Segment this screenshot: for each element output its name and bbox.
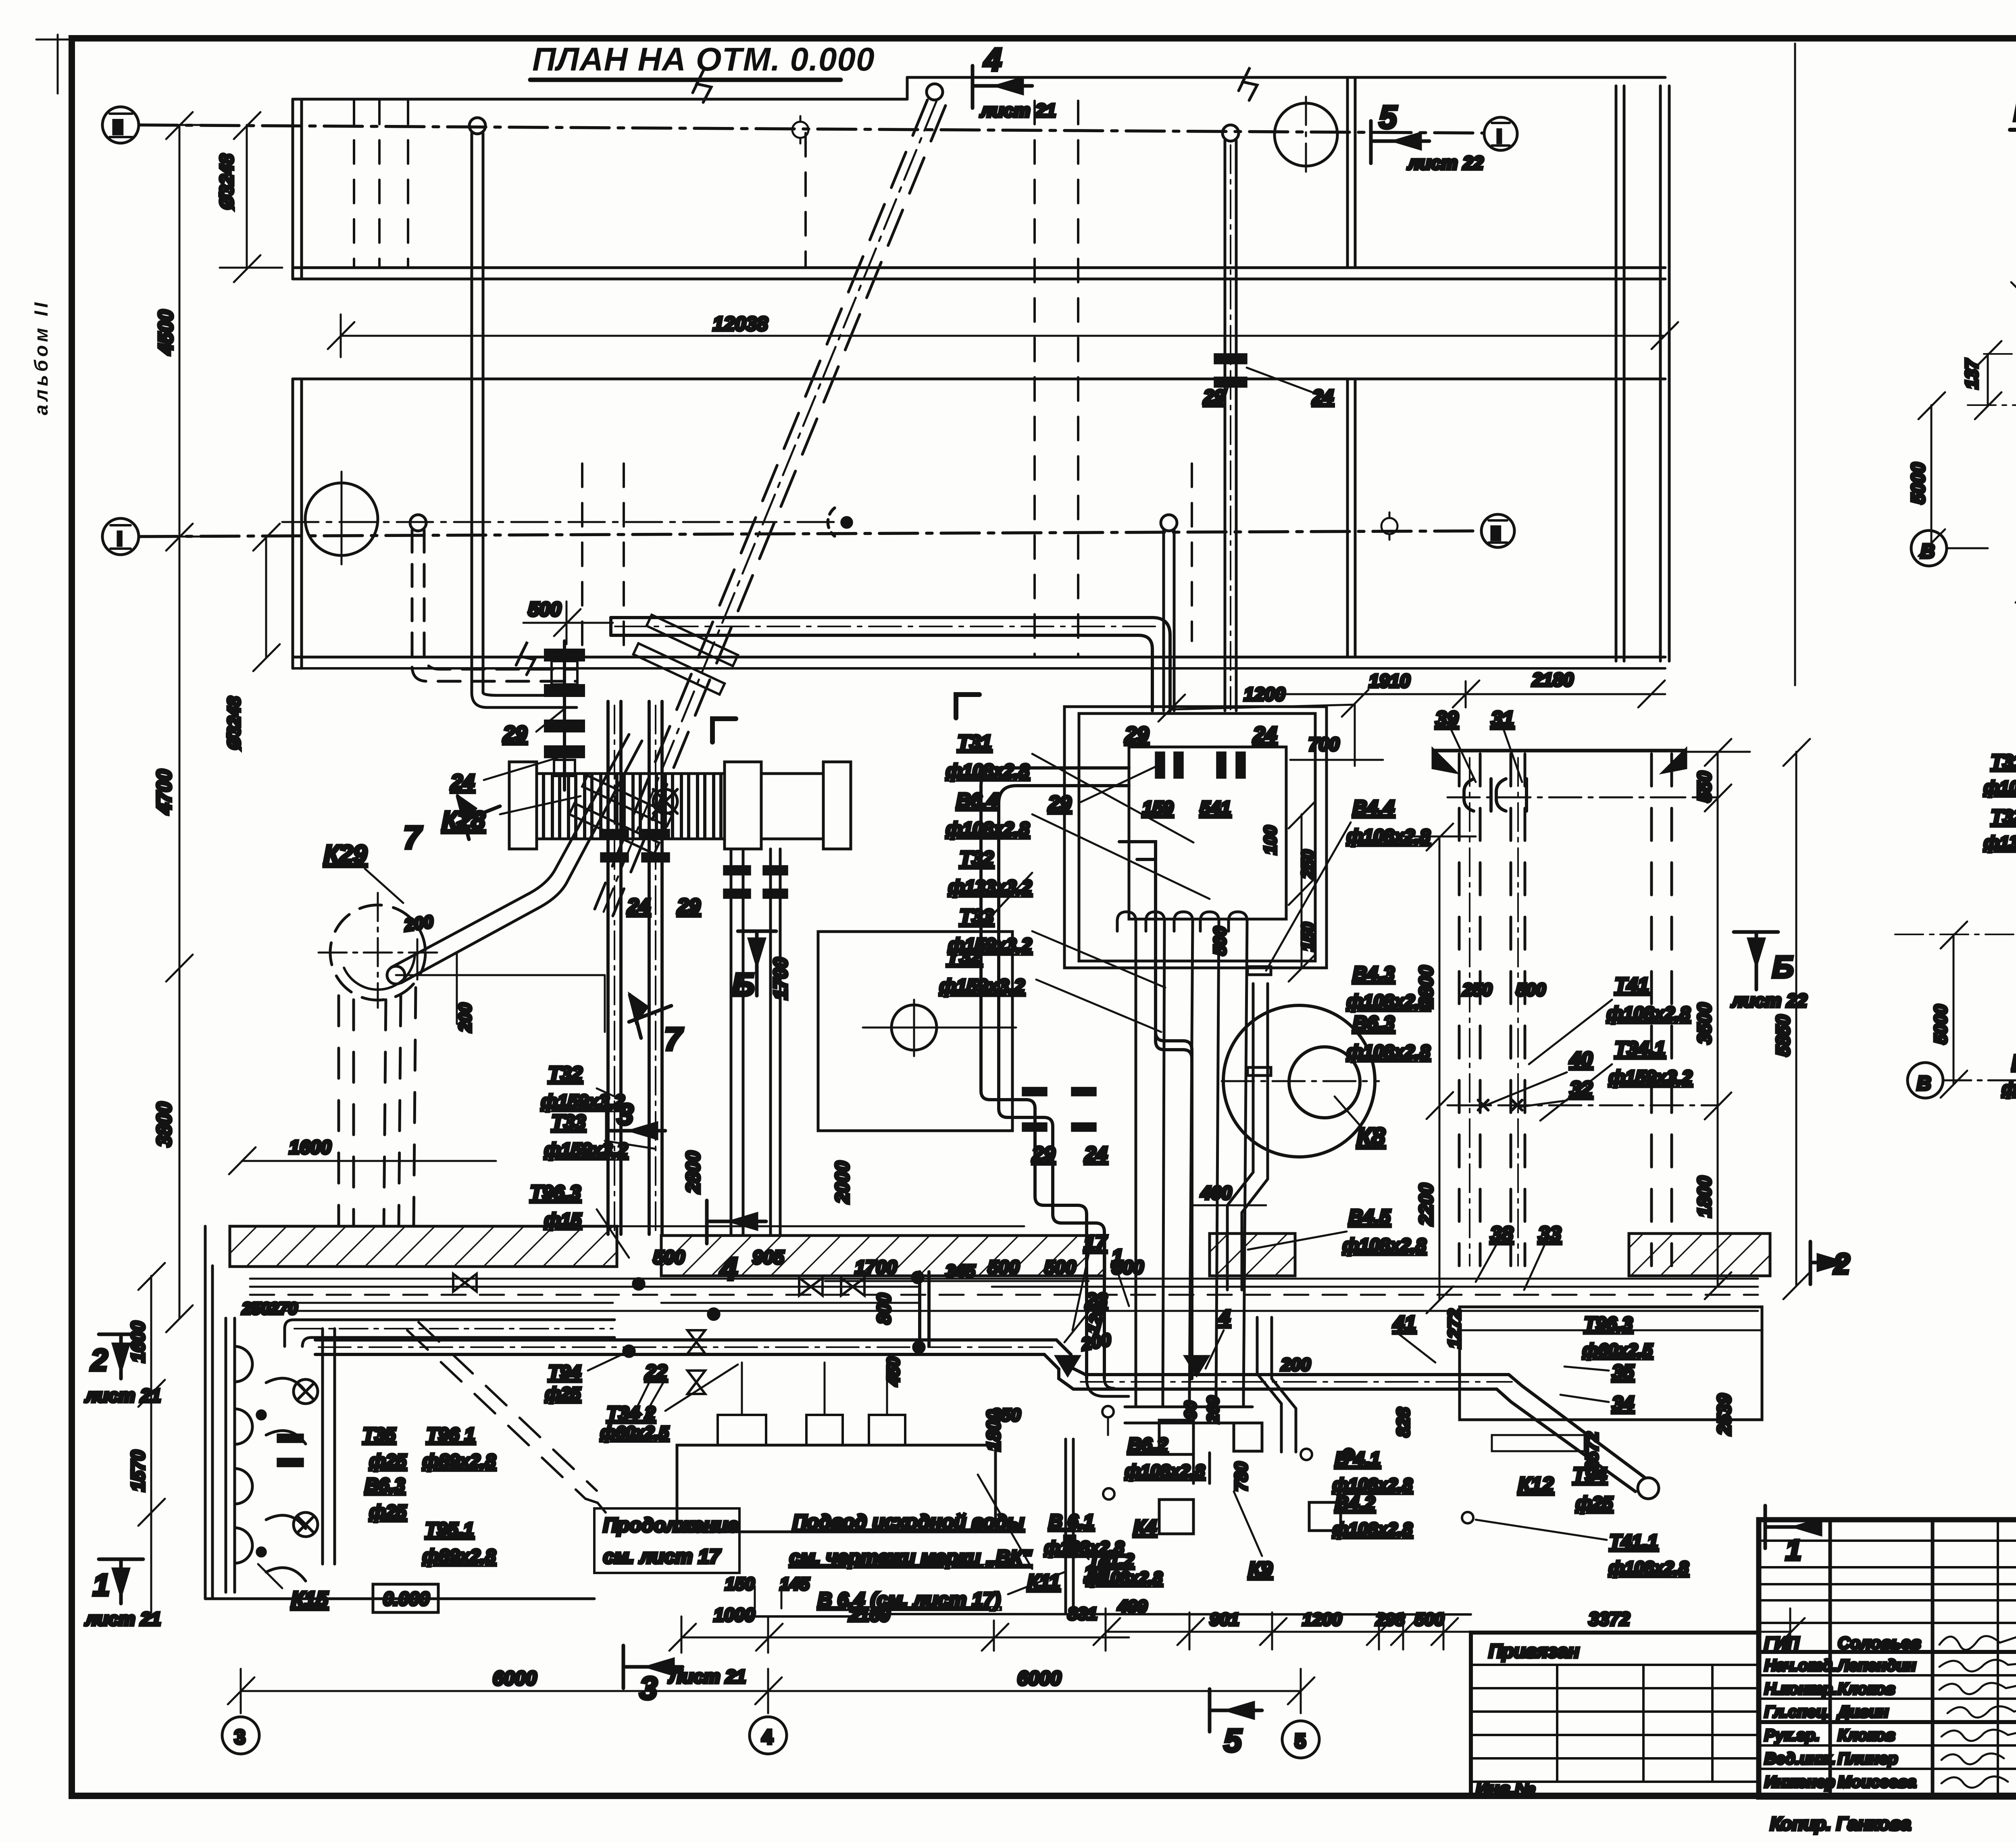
- svg-text:4700: 4700: [153, 770, 175, 815]
- svg-text:1570: 1570: [127, 1450, 148, 1491]
- svg-text:500: 500: [1516, 980, 1546, 1000]
- label T41.2: [0, 0, 2, 2]
- svg-text:лист 22: лист 22: [1731, 990, 1808, 1011]
- label T41: [1529, 974, 1690, 1064]
- svg-text:1272: 1272: [1445, 1309, 1464, 1348]
- svg-text:700: 700: [1308, 734, 1339, 755]
- label B6.1 + K4: [1044, 1510, 1156, 1558]
- svg-text:Привязан: Привязан: [1489, 1640, 1579, 1662]
- corner mark near manifold: [712, 719, 736, 742]
- svg-text:Т94: Т94: [548, 1361, 581, 1383]
- title block outer: [1759, 1520, 2016, 1797]
- svg-text:Инв.№: Инв.№: [1476, 1779, 1535, 1799]
- dims 1600 1570 left: [138, 1263, 165, 1612]
- mid-left standpipes T32/T33: [608, 701, 662, 1234]
- MAIN-TITLE: [530, 41, 875, 80]
- svg-text:В6,3: В6,3: [365, 1474, 405, 1496]
- label T33 f159 (left): [544, 1111, 656, 1160]
- dim 5850 far right: [1783, 739, 1810, 1299]
- svg-text:298: 298: [1375, 1610, 1405, 1629]
- svg-text:ф25: ф25: [369, 1450, 407, 1471]
- K8 flue circle: [1223, 1005, 1375, 1157]
- svg-text:Дивин: Дивин: [1837, 1703, 1889, 1721]
- svg-text:К28: К28: [442, 807, 485, 834]
- section flag 5 bottom: [1210, 1689, 1262, 1732]
- section flag 5 top: [1371, 121, 1429, 163]
- svg-text:31: 31: [1491, 707, 1514, 730]
- section flag 2 right: [1810, 1242, 1843, 1284]
- svg-text:250: 250: [242, 1299, 270, 1318]
- valve symbol on diagonal in coil: [653, 789, 677, 813]
- label T96.1 f89: [423, 1424, 496, 1471]
- B4.5 drop pipe with dogleg: [1227, 967, 1271, 1290]
- left room walls: [205, 1226, 1471, 1622]
- svg-text:К4: К4: [1133, 1516, 1156, 1538]
- channel lines below wall: [250, 1279, 1758, 1311]
- svg-text:159: 159: [1142, 797, 1173, 818]
- svg-text:Т34.1: Т34.1: [1615, 1038, 1665, 1060]
- svg-text:Нач.отд.: Нач.отд.: [1764, 1657, 1837, 1675]
- big pipe T32 S-route: [981, 768, 1129, 1379]
- svg-text:450: 450: [884, 1357, 903, 1386]
- svg-text:3: 3: [639, 1670, 658, 1706]
- section flag 7 lower: [629, 995, 671, 1038]
- svg-text:7: 7: [664, 1021, 683, 1057]
- svg-text:В6.3: В6.3: [1353, 1013, 1395, 1034]
- svg-text:К9: К9: [1248, 1558, 1272, 1581]
- svg-text:ф108х2,8: ф108х2,8: [1984, 778, 2016, 797]
- label T41.1: [1476, 1520, 1689, 1578]
- svg-text:4: 4: [983, 42, 1002, 77]
- svg-text:В4.3: В4.3: [1353, 963, 1395, 985]
- svg-text:Плинер: Плинер: [1838, 1750, 1898, 1768]
- tank 2 manhole circle: [305, 472, 378, 564]
- svg-text:В 6,1: В 6,1: [1049, 1510, 1094, 1532]
- svg-text:Б: Б: [732, 967, 755, 1003]
- X marks 40/32: [1478, 1100, 1522, 1110]
- label B6.4 bottom left: [2002, 986, 2016, 1098]
- svg-text:6000: 6000: [493, 1668, 537, 1689]
- level mark 0.000: [373, 1584, 438, 1612]
- svg-text:Т32: Т32: [548, 1063, 582, 1085]
- svg-text:29: 29: [1048, 792, 1071, 815]
- label T34.1: [1540, 1038, 1692, 1121]
- gas dashed risers (boiler 3): [1459, 754, 1672, 1266]
- K9 drop: [1257, 1317, 1296, 1452]
- circle B left: [1911, 530, 1988, 566]
- label B6.3 f25: [365, 1474, 407, 1522]
- dashed drain T96.1: [407, 1322, 597, 1499]
- break mark on tank1 top: [693, 69, 711, 102]
- svg-text:33: 33: [1538, 1222, 1561, 1245]
- svg-text:ф60х2,5: ф60х2,5: [600, 1423, 669, 1442]
- svg-text:В: В: [1917, 1073, 1931, 1094]
- svg-text:400: 400: [1200, 1182, 1232, 1203]
- dim 500 at left pipes: [523, 601, 613, 644]
- svg-text:ф108х2,8: ф108х2,8: [1343, 1235, 1426, 1256]
- svg-text:Т31: Т31: [958, 732, 991, 753]
- label T94 f25 right: [1573, 1463, 1617, 1514]
- flanges on risers at manifold top: [1156, 753, 1244, 777]
- boiler 3 top line: [1433, 751, 1685, 772]
- svg-text:29: 29: [677, 894, 700, 917]
- svg-text:Подвод исходной воды: Подвод исходной воды: [793, 1511, 1024, 1533]
- svg-text:альбом II: альбом II: [30, 299, 52, 415]
- svg-text:ф108х2,8: ф108х2,8: [1609, 1558, 1689, 1578]
- B6.2 marker dot: [1102, 1406, 1114, 1435]
- svg-text:13: 13: [1084, 1562, 1106, 1584]
- svg-text:ф25: ф25: [545, 1384, 581, 1404]
- section flag 4 top: [973, 66, 1032, 108]
- svg-text:Клоков: Клоков: [1838, 1680, 1895, 1698]
- svg-text:2180: 2180: [1532, 669, 1574, 690]
- svg-text:Лепендин: Лепендин: [1837, 1657, 1916, 1675]
- svg-text:901: 901: [1210, 1610, 1239, 1629]
- svg-text:ф108х2,8: ф108х2,8: [946, 760, 1029, 781]
- svg-text:5000: 5000: [1908, 462, 1929, 504]
- fat pipe F1 left room: [285, 1320, 614, 1346]
- svg-text:828: 828: [1393, 1407, 1413, 1437]
- svg-text:К29: К29: [324, 840, 367, 868]
- flanges on standpipes: [602, 830, 787, 897]
- svg-text:II: II: [112, 117, 123, 138]
- dim 5000 left: [1918, 392, 1945, 556]
- axis circle 4: [750, 1717, 787, 1754]
- svg-text:Т96,3: Т96,3: [1584, 1313, 1633, 1334]
- svg-text:17: 17: [1084, 1231, 1108, 1254]
- svg-text:В4.2: В4.2: [1335, 1492, 1375, 1514]
- label B6.2: [1125, 1434, 1205, 1481]
- flag 1 left: [99, 1559, 143, 1604]
- fold mark line: [1794, 44, 1796, 685]
- svg-text:2800: 2800: [682, 1151, 704, 1194]
- section flag 3 bottom: [623, 1645, 683, 1688]
- svg-text:Рук.гр.: Рук.гр.: [1764, 1727, 1820, 1744]
- dim Ø3248 top: [220, 112, 282, 282]
- svg-text:541: 541: [1200, 797, 1231, 818]
- fat pipe F2 main run: [315, 1340, 1659, 1499]
- label T95.1 f89: [423, 1518, 496, 1566]
- svg-text:24: 24: [1312, 386, 1333, 407]
- svg-text:Ø3248: Ø3248: [216, 154, 237, 210]
- tank 1 flue circle: [1275, 103, 1337, 166]
- svg-text:29: 29: [1203, 386, 1225, 407]
- building columns right: [1616, 86, 1669, 661]
- boiler water pipes (5 drops from manifold): [1117, 912, 1247, 1399]
- left feed pipe A (from tank2 circle): [410, 515, 577, 681]
- svg-text:Б: Б: [1772, 950, 1794, 984]
- svg-text:II: II: [1491, 523, 1501, 544]
- svg-text:лист 22: лист 22: [1407, 152, 1484, 173]
- wall hatch band: [230, 1226, 1770, 1276]
- svg-text:ф159х3,2: ф159х3,2: [948, 934, 1032, 955]
- tank 2 outline (plan): [293, 379, 1665, 668]
- svg-text:Т41.1: Т41.1: [1610, 1531, 1658, 1552]
- label B4.4: [1266, 797, 1430, 971]
- svg-text:ф108х2,8: ф108х2,8: [1333, 1475, 1413, 1495]
- svg-text:5: 5: [1295, 1730, 1306, 1752]
- svg-text:1: 1: [1785, 1534, 1801, 1566]
- label T35 f25: [363, 1424, 407, 1471]
- svg-text:24: 24: [450, 770, 475, 794]
- svg-text:200: 200: [403, 912, 435, 935]
- pump circles: [294, 1379, 318, 1537]
- svg-text:К11: К11: [1027, 1571, 1060, 1593]
- svg-text:ф159х3,2: ф159х3,2: [1609, 1067, 1692, 1088]
- dim 1700 345 500 500 500 row: [825, 1280, 1089, 1282]
- svg-text:3: 3: [234, 1726, 246, 1748]
- svg-text:В4.5: В4.5: [1349, 1206, 1391, 1228]
- dims 1910 2180 top: [1278, 680, 1665, 707]
- svg-text:1600: 1600: [289, 1136, 331, 1158]
- svg-text:План на отм. 14.400: План на отм. 14.400: [2014, 94, 2016, 128]
- circle B 10800: [1908, 1063, 2016, 1098]
- dim 1200 above manifold: [1158, 690, 1368, 722]
- svg-text:ф133х3,2: ф133х3,2: [1984, 833, 2016, 853]
- svg-text:34: 34: [1612, 1393, 1634, 1414]
- svg-text:3: 3: [617, 1098, 633, 1131]
- svg-text:ф159х3,2: ф159х3,2: [939, 975, 1025, 996]
- svg-text:0.000: 0.000: [383, 1588, 430, 1609]
- PLACE-RIGHT: [1471, 1520, 2016, 1837]
- svg-text:Лист 21: Лист 21: [668, 1666, 746, 1687]
- svg-text:41: 41: [1393, 1312, 1416, 1335]
- dim 550 3500 1800 right: [1685, 739, 1750, 1299]
- svg-text:4500: 4500: [154, 310, 177, 355]
- manifold enclosure box: [1064, 707, 1327, 968]
- axis line I-II (bottom): [139, 531, 1480, 537]
- svg-text:269: 269: [1204, 1396, 1222, 1423]
- label T32 10800: [1984, 806, 2016, 923]
- text Продолжение см. лист 17: [594, 1508, 739, 1573]
- svg-text:Т32: Т32: [1991, 806, 2016, 827]
- signatures: [1939, 1629, 2016, 1788]
- left extension box: [1471, 1633, 1759, 1799]
- axis circle 3: [222, 1717, 259, 1754]
- axis circle II left: [102, 107, 139, 143]
- K28 heater coil: [509, 762, 851, 849]
- svg-text:В6.2: В6.2: [1128, 1434, 1168, 1455]
- label T32 f133: [948, 848, 1032, 927]
- dim 5000 left rotated: [1895, 921, 2016, 1098]
- arrow fittings mid: [1056, 1356, 1208, 1375]
- svg-text:4: 4: [762, 1726, 773, 1748]
- title block grid: [1759, 1520, 2016, 1797]
- svg-text:29: 29: [1125, 723, 1149, 747]
- svg-text:6000: 6000: [1017, 1668, 1061, 1689]
- axis line II-I (top): [139, 125, 1483, 133]
- svg-text:1800: 1800: [1694, 1176, 1715, 1217]
- svg-text:Т32: Т32: [960, 848, 993, 869]
- svg-text:2000: 2000: [831, 1161, 853, 1204]
- boiler small circle: [863, 1000, 1016, 1056]
- svg-text:I: I: [1497, 126, 1502, 147]
- svg-text:1200: 1200: [1302, 1610, 1342, 1629]
- svg-text:см. чертежи марки „ВК": см. чертежи марки „ВК": [789, 1547, 1032, 1568]
- svg-text:2200: 2200: [1415, 1183, 1437, 1226]
- label B4.3: [1347, 963, 1430, 1012]
- svg-text:ф108х2,8: ф108х2,8: [1333, 1519, 1413, 1539]
- label T32 f159 (left): [541, 1063, 625, 1112]
- label B4.5: [1248, 1206, 1426, 1256]
- svg-text:100: 100: [1261, 826, 1280, 855]
- svg-text:35: 35: [1612, 1361, 1634, 1383]
- bottom dim row 499 901 1200 298 500 3372: [1093, 1608, 1805, 1651]
- B6.4 riser to below: [1064, 1439, 1075, 1612]
- svg-text:В 6,4 (см. лист 17): В 6,4 (см. лист 17): [818, 1589, 1000, 1611]
- label B4.1: [1333, 1448, 1413, 1495]
- svg-text:ф108х2,8: ф108х2,8: [1607, 1003, 1690, 1024]
- label T32 f159 (mid): [939, 945, 1161, 1032]
- K15 tank arcs: [235, 1346, 252, 1563]
- svg-text:Т33: Т33: [960, 906, 993, 928]
- valves on F pipes: [687, 1330, 705, 1394]
- svg-text:2: 2: [90, 1343, 108, 1377]
- svg-text:800: 800: [873, 1293, 894, 1324]
- valve on channel left: [453, 1274, 864, 1296]
- svg-text:К12: К12: [1518, 1473, 1554, 1496]
- sheet corner tick top-left: [57, 35, 59, 94]
- svg-text:1: 1: [1112, 1245, 1123, 1268]
- Т96.3 label right: [1583, 1313, 1653, 1360]
- svg-text:Гл.спец.: Гл.спец.: [1764, 1703, 1831, 1721]
- svg-text:5000: 5000: [1931, 1005, 1951, 1044]
- right reservoir box: [1460, 1307, 1762, 1451]
- flag 2 left: [99, 1334, 143, 1379]
- svg-text:ф89х2,8: ф89х2,8: [423, 1450, 496, 1471]
- svg-text:I: I: [117, 528, 122, 550]
- drop pipe bends at floor: [1087, 1379, 1210, 1483]
- svg-text:Н.контр.: Н.контр.: [1764, 1680, 1837, 1698]
- svg-text:1910: 1910: [1369, 670, 1410, 691]
- svg-text:Ø3248: Ø3248: [224, 696, 244, 750]
- dim 700: [1290, 705, 1383, 766]
- svg-text:145: 145: [780, 1574, 810, 1594]
- svg-text:5850: 5850: [1772, 1015, 1793, 1056]
- flange stack 29/24 left: [545, 641, 584, 790]
- svg-text:29: 29: [1032, 1142, 1055, 1165]
- flange hooks 39/31: [1464, 779, 1527, 811]
- K29 gas burner circle (dashed): [319, 893, 439, 1008]
- marker dots B4.1 B4.2: [1301, 1449, 1354, 1460]
- tank 1 outline (plan): [293, 77, 1665, 279]
- label B4.2: [1333, 1492, 1413, 1539]
- T94 f25 label (mid): [545, 1351, 629, 1404]
- svg-text:22: 22: [1085, 1290, 1108, 1311]
- dashed stay rods tank1: [354, 101, 806, 267]
- boiler foundation K11: [677, 1362, 996, 1532]
- label T96.3 f15: [530, 1182, 629, 1258]
- svg-text:200: 200: [456, 1003, 475, 1032]
- svg-text:29: 29: [503, 722, 527, 746]
- svg-text:ф108х2,8: ф108х2,8: [1044, 1538, 1125, 1558]
- svg-text:лист 21: лист 21: [980, 100, 1056, 121]
- svg-text:90: 90: [1182, 1401, 1200, 1419]
- flanges on riser at tank2 top: [1215, 355, 1246, 386]
- pipe T31 horizontal run: [611, 618, 1170, 711]
- svg-text:2: 2: [1833, 1248, 1850, 1280]
- svg-text:Вед.инж.: Вед.инж.: [1764, 1750, 1836, 1768]
- tank2 axis dash-dot to dot marker: [282, 508, 852, 536]
- svg-text:4: 4: [1218, 1306, 1230, 1329]
- boiler room square: [818, 932, 1012, 1131]
- dashed stay rods tank2 / between: [582, 101, 1192, 656]
- svg-text:2800: 2800: [1415, 965, 1437, 1008]
- dashed flue drop lines below K29: [339, 988, 416, 1225]
- flanges on T32 horizontal at 2750: [1023, 1088, 1095, 1130]
- svg-text:Т95.1: Т95.1: [425, 1518, 474, 1540]
- axis circle I right-top: [1484, 117, 1517, 150]
- svg-text:ф108х2,8: ф108х2,8: [1125, 1461, 1205, 1481]
- svg-text:3372: 3372: [1589, 1608, 1630, 1629]
- axis circle II right-bottom: [1481, 514, 1514, 547]
- svg-text:24: 24: [1084, 1142, 1108, 1165]
- section flag 4 (mid): [707, 1200, 766, 1244]
- marker dot B6.1: [1103, 1488, 1114, 1500]
- svg-text:1000: 1000: [714, 1604, 755, 1625]
- axis circle 5: [1282, 1721, 1319, 1758]
- svg-text:3800: 3800: [153, 1102, 175, 1147]
- svg-text:1: 1: [93, 1568, 110, 1602]
- inner manifold walls: [1129, 747, 1286, 919]
- svg-text:ф60х2,5: ф60х2,5: [1583, 1340, 1653, 1360]
- axis circle I left: [102, 518, 139, 555]
- svg-text:Т31: Т31: [1991, 751, 2016, 772]
- svg-text:В6.4: В6.4: [956, 790, 998, 811]
- riser pipe from tank1 (T98): [1223, 125, 1239, 711]
- svg-text:Т41: Т41: [1615, 974, 1649, 996]
- label B6.4 f108: [946, 790, 1210, 899]
- svg-text:500: 500: [1414, 1610, 1444, 1629]
- svg-text:5: 5: [1224, 1722, 1242, 1758]
- svg-text:22: 22: [645, 1361, 667, 1383]
- left feed pipe B (from tank1 riser): [469, 118, 577, 707]
- svg-text:ф25: ф25: [1576, 1493, 1613, 1514]
- svg-text:К15: К15: [291, 1587, 329, 1611]
- dim Ø3248 lower: [253, 524, 280, 671]
- svg-text:Т96.3: Т96.3: [530, 1182, 581, 1204]
- bottom dims 200 450 450 / 1800 1800 300: [2016, 540, 2016, 603]
- label B6.3: [1347, 1013, 1430, 1062]
- svg-text:ф159х3,2: ф159х3,2: [541, 1091, 625, 1112]
- text Подвод исходной воды: [789, 1511, 1032, 1568]
- riser pipe from tank2: [1161, 515, 1177, 711]
- svg-text:39: 39: [1435, 707, 1458, 730]
- label T31 10800: [1984, 751, 2016, 923]
- svg-text:Продолжение: Продолжение: [603, 1514, 739, 1536]
- svg-text:780: 780: [1231, 1462, 1251, 1491]
- svg-text:40: 40: [1569, 1048, 1593, 1071]
- svg-text:лист 21: лист 21: [85, 1608, 161, 1629]
- svg-text:24: 24: [1253, 723, 1277, 747]
- K28 drop pipes: [731, 849, 780, 1234]
- svg-text:ф108х2,8: ф108х2,8: [946, 818, 1029, 839]
- svg-text:12038: 12038: [713, 313, 768, 335]
- svg-text:Инженер: Инженер: [1764, 1773, 1835, 1791]
- centerlines 14.400: [1968, 218, 2016, 520]
- section flag Б right: [1734, 932, 1778, 990]
- section flag Б (left): [738, 931, 776, 996]
- svg-text:В: В: [1920, 541, 1935, 562]
- svg-text:ф 108х2,8: ф 108х2,8: [2002, 1079, 2016, 1098]
- dim 12038: [328, 314, 1678, 357]
- svg-text:Клоков: Клоков: [1838, 1727, 1895, 1744]
- svg-text:831: 831: [1068, 1604, 1097, 1624]
- section flag 3 (mid): [607, 1109, 665, 1152]
- svg-text:Моисеева: Моисеева: [1838, 1773, 1916, 1791]
- svg-text:Копир. Ганкова: Копир. Ганкова: [1770, 1813, 1911, 1834]
- svg-text:2539: 2539: [1714, 1394, 1735, 1435]
